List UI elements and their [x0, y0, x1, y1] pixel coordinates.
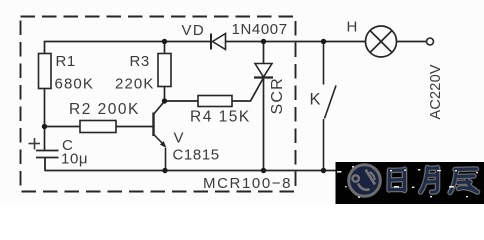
wire R4 right to gate	[232, 79, 263, 102]
node emitter bottom	[162, 168, 167, 173]
svg-text:R4 15K: R4 15K	[190, 109, 251, 126]
wire R1 bottom to capacitor	[44, 89, 46, 151]
wire lamp to terminal	[397, 41, 427, 43]
resistor R2	[80, 121, 116, 133]
svg-text:MCR100−8: MCR100−8	[203, 175, 292, 192]
resistor R3	[158, 54, 171, 87]
diode VD 1N4007	[211, 34, 226, 50]
svg-text:R1: R1	[56, 53, 76, 70]
svg-text:H: H	[347, 19, 358, 36]
svg-text:V: V	[174, 130, 185, 147]
wire top rail right of diode	[226, 41, 366, 43]
terminal	[427, 38, 434, 45]
transistor V C1815	[154, 101, 166, 170]
resistor R1	[39, 54, 52, 89]
svg-text:220K: 220K	[115, 76, 154, 93]
svg-text:C1815: C1815	[173, 147, 220, 164]
wire collector node to R4 left	[165, 100, 199, 102]
dashed enclosure border MCR100-8 module	[21, 17, 296, 192]
node collector/R4	[162, 98, 167, 103]
watermark character CHEN (dragon)	[450, 169, 478, 193]
svg-text:10μ: 10μ	[61, 151, 88, 168]
switch K	[324, 42, 337, 171]
svg-text:K: K	[310, 91, 322, 109]
wire SCR cathode down	[263, 78, 265, 171]
lamp H	[366, 26, 397, 57]
node top SCR	[261, 39, 266, 44]
watermark character YUE (moon)	[421, 168, 438, 193]
wire R3 bottom to collector node	[164, 87, 166, 102]
node top K	[321, 39, 326, 44]
watermark speckles	[337, 166, 478, 198]
watermark logo circle	[349, 165, 381, 197]
svg-text:680K: 680K	[55, 76, 94, 93]
wire R3 top stub	[164, 42, 166, 54]
node top R3	[162, 39, 167, 44]
capacitor C 10u electrolytic	[36, 151, 59, 171]
svg-text:SCR: SCR	[269, 77, 286, 114]
svg-text:R3: R3	[130, 53, 150, 70]
wire bottom rail	[45, 170, 339, 172]
plus polarity mark	[29, 138, 41, 150]
watermark banner	[336, 162, 484, 204]
svg-text:R2 200K: R2 200K	[69, 101, 140, 118]
wire SCR anode stub	[263, 42, 265, 64]
svg-text:1N4007: 1N4007	[232, 21, 288, 38]
svg-text:AC220V: AC220V	[428, 64, 444, 119]
node K bottom	[321, 168, 326, 173]
node SCR bottom	[261, 168, 266, 173]
wire top rail left segment	[45, 42, 212, 54]
svg-text:VD: VD	[182, 22, 206, 39]
resistor R4	[198, 96, 232, 107]
wire node to R2 left	[45, 126, 81, 128]
thyristor SCR	[254, 64, 273, 78]
wire R2 right to base	[116, 126, 154, 128]
emitter arrow	[160, 141, 167, 148]
node R1/R2/C	[42, 124, 47, 129]
watermark character RI (sun)	[389, 169, 405, 191]
